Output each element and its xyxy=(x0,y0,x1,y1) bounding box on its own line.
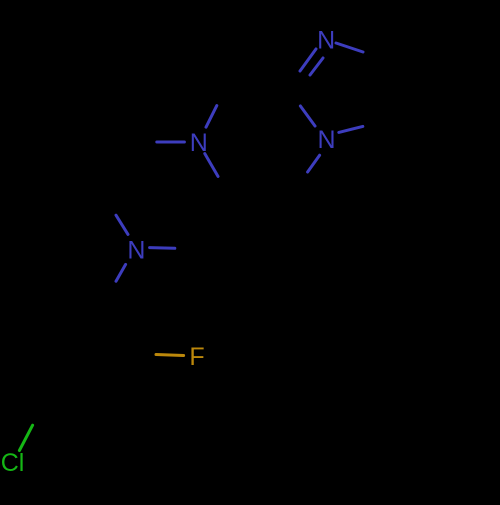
bond N1-C5 half xyxy=(336,43,363,52)
bond N5-C(phenyl) half xyxy=(116,264,126,281)
bond N3-CH3 half xyxy=(308,155,320,172)
bond N1=C2 inner half xyxy=(310,58,323,75)
bond N4-C(ring left) half xyxy=(157,141,185,144)
svg-text:N: N xyxy=(317,126,335,154)
svg-text:F: F xyxy=(189,343,204,371)
bond Cl-C(phenyl) half xyxy=(19,425,32,450)
bond C2-N3 half xyxy=(300,106,315,126)
bond N4-CH2(bridge) half xyxy=(206,106,217,128)
bond N5-C(ring upper-left) half xyxy=(116,215,128,234)
bond N4-C(ring right) half xyxy=(205,154,218,177)
svg-text:N: N xyxy=(127,236,145,264)
svg-text:N: N xyxy=(317,27,335,55)
svg-text:Cl: Cl xyxy=(1,449,25,477)
bond N1=C2 outer half xyxy=(300,49,316,71)
bond N5-C(ring right) half xyxy=(150,246,175,250)
bond N3-C4 half xyxy=(339,126,363,132)
bond F-C(phenyl) half xyxy=(156,355,184,356)
